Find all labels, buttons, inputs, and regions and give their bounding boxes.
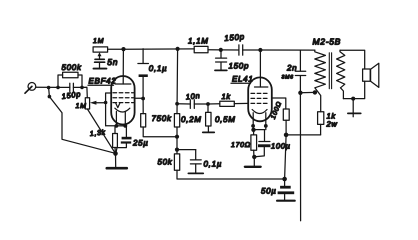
U2 grid g1 (dashed): [251, 102, 268, 104]
svg-text:2w: 2w: [326, 120, 338, 129]
svg-text:1M: 1M: [76, 103, 87, 110]
node C: [80, 86, 84, 90]
label EL41: [231, 74, 253, 83]
capacitor 150p (series top): [221, 45, 258, 55]
node speaker ground: [351, 97, 355, 101]
resistor 1k 2w: [318, 112, 324, 135]
label EBF42: [88, 77, 116, 86]
node primary bottom: [313, 90, 317, 94]
node 50µ: [282, 177, 287, 182]
tube EL41 U2 envelope: [248, 77, 272, 121]
transformer T1 core: [329, 53, 331, 89]
node cathode ground junction: [113, 151, 118, 156]
node screen bottom: [284, 133, 289, 138]
svg-text:1,3k: 1,3k: [89, 128, 106, 138]
transformer T1 primary: [315, 50, 326, 112]
resistor 1,3k: [113, 126, 118, 153]
U2 grid g3 (dashed): [251, 92, 268, 94]
ground (EL41 cathode): [245, 157, 261, 167]
svg-text:M2-5B: M2-5B: [313, 37, 342, 47]
capacitor 0,1µ (screen bypass): [138, 49, 149, 99]
svg-text:0,1µ: 0,1µ: [149, 64, 168, 73]
U1 second lead: [124, 112, 126, 127]
svg-text:2n: 2n: [286, 64, 297, 73]
resistor 750k: [141, 99, 177, 137]
node 150p junction: [219, 48, 223, 52]
node 10n tap: [175, 102, 179, 106]
U1 cathode lead: [115, 112, 117, 127]
wire wiper to grid of U1: [106, 93, 112, 126]
node grid EL41 network: [206, 102, 210, 106]
svg-text:3M6: 3M6: [282, 74, 294, 80]
node cathode RC: [251, 128, 255, 132]
capacitor 25µ: [116, 126, 132, 153]
node A (input tap): [47, 86, 51, 90]
wire U2 screen stub: [272, 98, 286, 109]
node 750k join: [175, 135, 179, 139]
U2 cathode arc: [252, 110, 267, 114]
svg-text:50k: 50k: [158, 158, 173, 167]
wire pot bottom to ground bus (diagonal): [87, 109, 115, 153]
potentiometer 1M (volume): [85, 98, 105, 109]
ground (under shunt 150p): [215, 69, 227, 71]
svg-text:EL41: EL41: [232, 74, 253, 83]
U2 cathode lead: [252, 113, 254, 130]
wire secondary to speaker bottom: [343, 81, 364, 98]
resistor 100Ω: [283, 109, 289, 135]
node rail / screen dropper: [176, 47, 180, 51]
tube EBF42 U1 envelope: [111, 76, 134, 125]
U1 cathode V mark: [116, 103, 120, 107]
capacitor 2n: [295, 50, 305, 93]
transformer T1 secondary: [337, 50, 345, 98]
svg-text:750k: 750k: [152, 114, 172, 123]
svg-text:EBF42: EBF42: [89, 77, 117, 86]
svg-text:1M: 1M: [93, 38, 104, 45]
node wiper: [104, 101, 108, 105]
wire tap stub: [48, 88, 51, 97]
resistor 0,2M: [174, 114, 179, 154]
node 0,1µ tap: [175, 148, 179, 152]
node cathode 2: [123, 124, 127, 128]
svg-text:100µ: 100µ: [271, 142, 291, 151]
wire 2n to primary bottom: [300, 91, 315, 93]
resistor 500k: [58, 72, 82, 87]
U1 grid g1 (dashed): [113, 92, 134, 94]
node cathode 1: [115, 124, 119, 128]
node RC left: [56, 86, 60, 90]
wire screen dropper vertical: [176, 49, 179, 114]
node U2 g3: [264, 124, 268, 128]
resistor 0,5M: [206, 104, 211, 132]
ground (under 50µ): [277, 200, 295, 202]
wire down to 50µ: [285, 135, 287, 179]
svg-text:0,5M: 0,5M: [215, 115, 236, 124]
svg-text:1k: 1k: [222, 92, 232, 101]
node anode U1 / rail: [121, 47, 125, 51]
capacitor 100µ: [255, 130, 271, 157]
svg-text:10n: 10n: [185, 91, 200, 101]
wire B- vertical: [299, 93, 301, 221]
wire secondary to speaker top: [340, 50, 365, 69]
svg-text:50µ: 50µ: [261, 187, 277, 196]
resistor 170Ω: [251, 130, 257, 157]
node B: [48, 95, 52, 99]
svg-text:170Ω: 170Ω: [231, 142, 251, 149]
U2 grid g2 (dashed): [251, 97, 268, 99]
svg-text:150p: 150p: [224, 32, 245, 43]
U2 anode: [255, 50, 268, 87]
capacitor 10n: [177, 100, 208, 109]
ground (under bottom 0,1µ): [188, 172, 203, 174]
wire screen bottom bus: [286, 134, 321, 136]
capacitor 150p (shunt): [216, 50, 227, 70]
svg-text:25µ: 25µ: [132, 139, 149, 148]
node U2 cathode: [251, 124, 255, 128]
wire U1 screen stub: [135, 97, 143, 99]
svg-text:150p: 150p: [61, 89, 82, 101]
node cathode ground: [252, 155, 256, 159]
capacitor 0,1µ (bottom): [177, 150, 201, 173]
capacitor 5n: [95, 59, 105, 68]
node 2n bottom: [298, 91, 302, 95]
U1 cathode arc: [115, 108, 130, 112]
wire rail to output stage: [260, 49, 314, 51]
wire to ground bus (diagonal): [49, 97, 115, 154]
svg-text:5n: 5n: [107, 57, 118, 67]
wire cathode join: [253, 129, 264, 131]
resistor 50k: [174, 154, 284, 179]
capacitor 150p (series input): [58, 83, 82, 91]
svg-text:0,2M: 0,2M: [181, 115, 202, 124]
ground (speaker): [348, 99, 361, 117]
wire B+ rail: [108, 48, 195, 50]
ground (main left): [107, 154, 127, 169]
potentiometer 1M (tone, top): [93, 47, 108, 59]
svg-text:500k: 500k: [62, 63, 82, 72]
svg-text:0,1µ: 0,1µ: [204, 160, 223, 169]
ground (under 5n): [94, 68, 107, 70]
ground (under 0,5M): [203, 131, 214, 133]
node screen: [141, 97, 145, 101]
speaker LS1: [363, 63, 379, 87]
resistor 1k (grid stopper): [208, 101, 248, 106]
U1 anode: [115, 49, 131, 84]
capacitor 50µ: [278, 179, 295, 200]
U2 g3 lead: [265, 113, 267, 130]
node anode EL41: [258, 48, 262, 52]
U1 grid g3 (dashed): [113, 102, 134, 104]
U1 grid g2 (dashed): [113, 97, 134, 99]
wire input to RC node: [36, 86, 58, 88]
resistor 1,1M: [194, 46, 221, 52]
svg-text:150p: 150p: [229, 62, 250, 71]
svg-text:1,1M: 1,1M: [188, 37, 209, 46]
input jack J1: [25, 83, 36, 94]
wire cathode bus: [106, 125, 127, 127]
wire node C to pot: [82, 87, 87, 98]
